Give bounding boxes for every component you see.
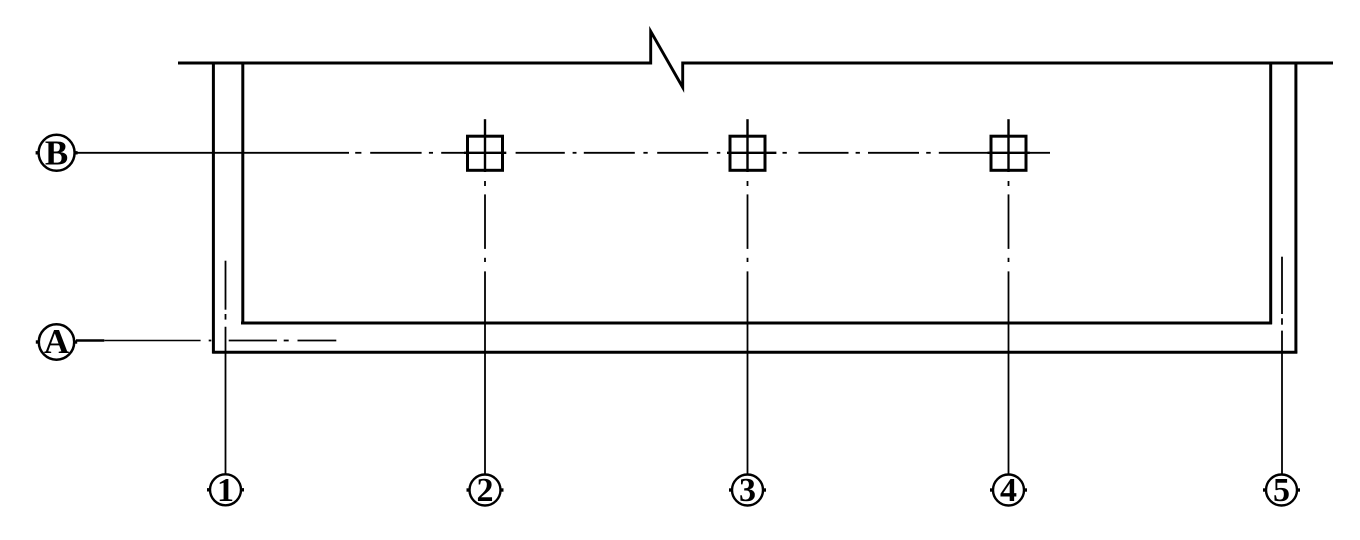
right wall outer line [1294, 62, 1297, 354]
grid bubble B [36, 133, 78, 172]
left wall inner line [241, 62, 244, 325]
grid line B dash-dot segments [355, 152, 1050, 154]
bottom wall inner line [241, 322, 1272, 325]
svg-text:B: B [45, 133, 68, 172]
top cut line with break symbol [178, 31, 1333, 87]
grid bubble 3 [729, 472, 766, 509]
grid line A segments [76, 339, 336, 342]
svg-text:3: 3 [739, 472, 756, 509]
column square at B2 [464, 119, 506, 172]
svg-text:2: 2 [477, 472, 494, 509]
grid line 5 vertical segments [1281, 257, 1283, 474]
grid line 4 vertical segments [1008, 181, 1010, 474]
left wall outer line [212, 62, 215, 354]
svg-text:1: 1 [217, 472, 234, 509]
grid bubble 2 [467, 472, 504, 509]
grid line 1 vertical segments [225, 261, 227, 474]
right wall inner line [1269, 62, 1272, 325]
grid bubble 1 [207, 472, 244, 509]
bottom wall outer line [212, 351, 1297, 354]
grid bubble A [36, 322, 77, 361]
column square at B4 [988, 119, 1030, 172]
grid line B solid segment [76, 152, 349, 154]
grid bubble 4 [990, 472, 1027, 509]
grid line 2 vertical segments [484, 181, 486, 474]
grid bubble 5 [1263, 472, 1300, 509]
svg-text:4: 4 [1000, 472, 1017, 509]
svg-text:A: A [44, 322, 70, 361]
grid line 3 vertical segments [747, 181, 749, 474]
svg-text:5: 5 [1273, 472, 1290, 509]
column square at B3 [727, 119, 776, 172]
